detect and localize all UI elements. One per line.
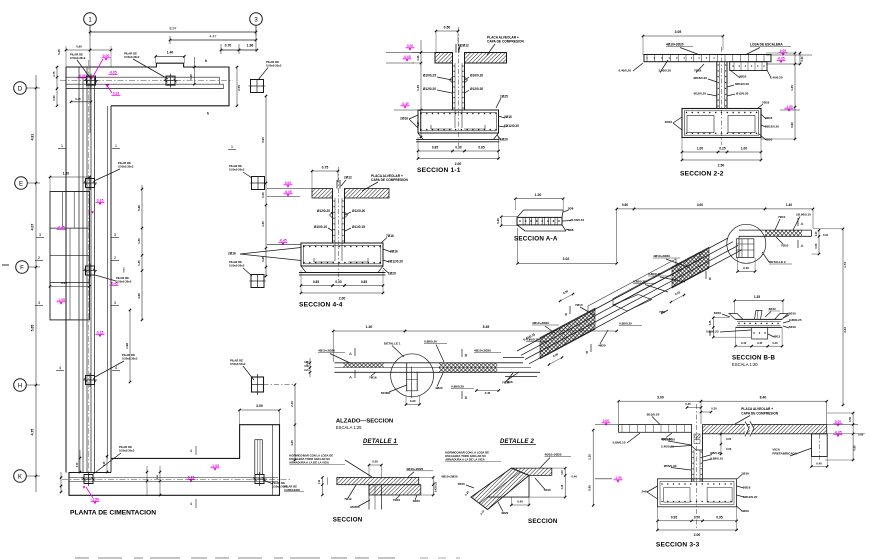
svg-text:PLANTA DE CIMENTACION: PLANTA DE CIMENTACION [70,510,156,517]
svg-text:4Ø10+2Ø20: 4Ø10+2Ø20 [666,43,684,47]
svg-text:4Ø16: 4Ø16 [739,75,747,79]
svg-text:0.25: 0.25 [562,484,564,489]
svg-text:Ø12/0.20: Ø12/0.20 [423,87,436,91]
svg-text:7Ø10: 7Ø10 [457,482,465,486]
section 1-1 wall [452,53,454,111]
svg-text:1.45: 1.45 [416,85,420,91]
grid bubble D [14,82,27,95]
svg-text:3.00: 3.00 [61,281,67,285]
svg-text:2Ø16: 2Ø16 [743,486,751,490]
svg-text:4Ø10+2Ø20: 4Ø10+2Ø20 [318,349,335,353]
svg-text:2.00: 2.00 [455,162,462,166]
svg-text:5.45: 5.45 [483,325,490,329]
svg-text:7Ø16: 7Ø16 [369,376,377,380]
section A-A end slants [517,210,524,217]
svg-text:0.45: 0.45 [103,461,106,466]
section 4-4 datum lines [267,188,312,190]
svg-text:0.88/0.20: 0.88/0.20 [424,340,437,344]
section 2-2 slab lower layer right [730,62,767,71]
vertical dim right of band 3.05 [236,67,238,106]
svg-text:8Ø12/0.20: 8Ø12/0.20 [735,82,749,86]
section 1-1 wall embedded into footing [454,110,456,128]
stair slab line 2 [521,242,733,356]
stair rotated dim 0.42 [671,295,684,302]
svg-text:Ø13/0.20: Ø13/0.20 [647,413,660,417]
svg-text:Ø8/0.20: Ø8/0.20 [661,437,672,441]
stair lap bar outline 1 [588,259,676,313]
section 2-2 datum lines right [766,54,812,56]
alzado top dim 1.30 [333,330,405,332]
svg-text:3Ø16: 3Ø16 [765,116,773,120]
svg-text:SECCION A-A: SECCION A-A [514,236,558,243]
section 3-3 top dim 3.00 [619,400,701,402]
svg-text:J#8: J#8 [641,490,646,494]
svg-text:0.40: 0.40 [743,266,749,270]
svg-text:0.55: 0.55 [848,416,852,422]
svg-text:0.95: 0.95 [588,485,592,491]
section 4-4 wall centreline [338,167,340,280]
section 3-3 wall centreline [696,404,698,530]
svg-text:K: K [18,474,22,480]
dimension 4.47 [170,39,256,41]
stair rotated dim 0.50 [560,294,573,301]
alzado left small dims [309,358,311,377]
svg-text:4Ø10+2Ø20: 4Ø10+2Ø20 [474,349,491,353]
dash-dot link from column H to dim [264,384,296,386]
stair dim 3.02 [518,262,617,264]
plan top band centreline [60,80,233,82]
svg-text:0.85: 0.85 [478,146,484,150]
section 4-4 footing bottom bars [314,258,334,262]
stair slab line 1 [517,238,728,351]
section A-A beam core [517,217,562,225]
svg-text:1Ø20: 1Ø20 [388,272,396,276]
stair step outline quad [613,295,651,312]
section 1-1 level datum lines [386,52,435,54]
svg-text:Ø11/0.15: Ø11/0.15 [352,225,365,229]
svg-text:1.35: 1.35 [754,295,760,299]
section B-B right flange [775,314,789,320]
section 3-3 footing voids [664,488,690,503]
svg-text:SECCION 2-2: SECCION 2-2 [680,171,724,178]
svg-text:1Ø20: 1Ø20 [741,509,749,513]
svg-text:0.00: 0.00 [285,181,291,185]
stair dim 0.40 below lower zone [549,358,562,365]
svg-text:0.60: 0.60 [189,74,193,80]
svg-text:0.90: 0.90 [52,95,56,101]
plan dim 1.40 near notch [156,55,185,57]
magenta leader bottom left [86,487,93,498]
svg-text:0.40: 0.40 [741,341,747,345]
svg-text:0.20: 0.20 [372,460,378,464]
alzado dim 0.30 below muro [406,404,420,406]
section 1-1 wall centreline [457,27,459,146]
alzado slab lines [334,362,523,364]
svg-text:Ø12/0.20: Ø12/0.20 [694,92,707,96]
svg-text:0.50: 0.50 [814,243,818,249]
svg-text:-0.05: -0.05 [284,190,292,194]
svg-text:0.70: 0.70 [77,462,79,467]
svg-text:3Ø16: 3Ø16 [504,115,512,119]
svg-text:A: A [801,221,804,226]
svg-text:4Ø10+2Ø20: 4Ø10+2Ø20 [545,453,562,457]
small dim bracket bottom left [60,472,62,492]
svg-text:B: B [465,395,468,400]
svg-text:B: B [565,312,568,317]
section 3-3 wall [691,432,693,482]
section 3-3 wall head [692,432,703,450]
dim 1.20 above block [50,176,90,178]
alzado right x-mark zone rows [371,363,508,368]
svg-text:4.60: 4.60 [137,293,141,299]
svg-text:0.20: 0.20 [726,447,732,451]
svg-text:PLACA ALVEOLAR +: PLACA ALVEOLAR + [741,407,773,411]
svg-text:0.40/0.20: 0.40/0.20 [618,69,631,73]
svg-text:0.60: 0.60 [852,445,856,451]
svg-text:4.75: 4.75 [31,429,35,436]
stair junction to landing [728,237,739,239]
svg-text:Ø12/0.20: Ø12/0.20 [736,92,749,96]
svg-text:2.50: 2.50 [718,164,725,168]
bottom band beam lines [69,477,278,479]
svg-text:CAPA DE COMPRESION: CAPA DE COMPRESION [487,39,525,43]
isolated column row H grid3 [252,377,264,392]
svg-text:0.80: 0.80 [622,203,628,207]
svg-text:B: B [465,353,468,358]
svg-text:0.40: 0.40 [772,341,778,345]
dim 0.40 below detail box [738,271,756,273]
svg-text:0.88/0.25: 0.88/0.25 [619,322,632,326]
plan small dims above corner [66,49,90,51]
svg-text:0.18: 0.18 [823,233,829,237]
svg-text:1.40: 1.40 [786,203,792,207]
svg-text:0.50x0.50x2: 0.50x0.50x2 [229,167,245,171]
svg-text:0.95: 0.95 [671,515,677,519]
plan vertical strip wall lines [65,67,67,473]
svg-text:0.50x0.30x2: 0.50x0.30x2 [70,56,86,60]
vertical dim right of notch [294,385,296,425]
svg-text:0.42/0.25: 0.42/0.25 [435,481,438,492]
svg-text:4Ø20: 4Ø20 [435,386,443,390]
svg-text:1.98: 1.98 [125,343,129,349]
section 1-1 left dim chain [420,40,422,137]
column bottom left on band [84,475,93,484]
section 4-4 bottom dims [301,285,333,287]
detail circle top of stair [727,224,766,263]
svg-text:ESCALA 1:20: ESCALA 1:20 [732,362,758,367]
svg-text:0.50x0.30x2: 0.50x0.30x2 [118,164,134,168]
section 2-2 wall [716,62,718,109]
svg-text:0.25: 0.25 [719,147,725,151]
svg-text:h: h [205,59,207,63]
svg-text:SECCION: SECCION [333,517,363,524]
svg-text:7Ø16: 7Ø16 [386,234,394,238]
detalle 1 step verticals [368,485,370,510]
svg-text:2Ø12: 2Ø12 [344,176,352,180]
section B-B left dim chain [712,318,714,338]
section B-B bottom dims [736,345,752,347]
grid bubble E [15,177,28,190]
svg-text:B: B [709,276,712,281]
section 1-1 footing bottom bars [431,125,452,129]
grid bubble F [16,261,29,274]
svg-text:D: D [18,86,23,92]
section 3-3 slab break mark [745,421,754,436]
svg-text:0.26: 0.26 [416,55,420,61]
section B-B centre stub up [754,310,762,319]
svg-text:CABECERO: CABECERO [284,488,301,492]
svg-text:4Ø12: 4Ø12 [773,335,781,339]
dim 3.00 above notch [240,409,280,411]
vertical dim chain grid3 [265,96,267,276]
svg-text:-0.45: -0.45 [57,226,65,230]
svg-text:1.20: 1.20 [535,193,542,197]
svg-text:0.50x0.30x2: 0.50x0.30x2 [116,279,132,283]
svg-text:0.88/0.25: 0.88/0.25 [633,280,646,284]
svg-text:0.30: 0.30 [455,146,461,150]
column bottom right on band [255,475,264,484]
svg-text:0.20: 0.20 [816,231,818,236]
svg-text:3.60: 3.60 [697,203,703,207]
svg-text:0.90: 0.90 [76,45,82,49]
svg-text:0.50: 0.50 [444,26,451,30]
svg-text:1.00: 1.00 [697,147,703,151]
left vertical dimension chain [35,75,37,492]
svg-text:3Ø8: 3Ø8 [568,207,574,211]
svg-text:DETALLE 1: DETALLE 1 [384,342,401,346]
dim inside block [50,285,90,287]
svg-text:3Ø12: 3Ø12 [769,307,777,311]
section 4-4 slab hatched [312,189,333,199]
plan bottom band outline [69,425,280,496]
svg-text:0.70: 0.70 [225,44,232,48]
svg-text:Ø10/0.10: Ø10/0.10 [314,225,327,229]
stair junction stubs lower [503,356,524,358]
alzado section cut B marks [461,349,463,357]
bottom cropped text artifacts [75,557,395,559]
grid bubble 1 [84,13,97,26]
svg-text:1.35: 1.35 [137,260,141,266]
detalle 2 diagonal band mid line [479,472,520,504]
dimensions 0.70 1.98 [221,49,239,51]
alzado dim 0.45 below [476,390,498,392]
section 3-3 wall small dims right [720,434,722,444]
vertical small dims inside bottom band [159,466,161,496]
section A-A beam top line [524,209,564,211]
section 3-3 right slab hatched [703,425,827,434]
dimension 8.97 between grids 1-3 [90,31,256,33]
svg-text:6Ø12/0.20: 6Ø12/0.20 [743,495,758,499]
svg-text:2Ø16: 2Ø16 [228,252,236,256]
svg-text:ALZADO—SECCION: ALZADO—SECCION [336,419,393,425]
bottom band centreline [62,479,290,481]
detalle 2 diagonal band hatched [471,468,529,509]
section 1-1 slab placa alveolar hatched [435,53,507,64]
section A-A left dim 0.26 [500,217,502,226]
svg-text:0.50x0.50x2: 0.50x0.50x2 [266,63,282,67]
section 4-4 wall embedded into footing [334,243,336,261]
landing slab top [739,229,812,231]
pier rectangle bottom right [255,440,262,475]
svg-text:3Ø10: 3Ø10 [714,311,722,315]
svg-text:A: A [349,351,352,356]
svg-text:1.35: 1.35 [261,221,265,227]
section 3-3 dims 0.35 0.20 [687,407,701,409]
section 2-2 footing [682,109,761,138]
svg-text:6Ø12/0.20: 6Ø12/0.20 [765,125,779,129]
svg-text:8.40: 8.40 [760,395,767,399]
svg-text:0.50x0.50x2: 0.50x0.50x2 [229,263,245,267]
section 4-4 wall [332,189,334,244]
svg-text:0.15: 0.15 [97,199,104,203]
detalle 1 upper slab hatched [337,477,419,484]
svg-text:0.12: 0.12 [319,479,321,484]
section A-A beam bottom line [525,230,566,232]
svg-text:2Ø16: 2Ø16 [665,120,673,124]
svg-text:3.02: 3.02 [563,257,570,261]
grid bubble 3 [250,13,263,26]
svg-text:7Ø10: 7Ø10 [778,215,786,219]
alzado section cut A marks [354,348,356,356]
vertical dim 0.60 inside band [193,57,195,85]
svg-text:0.45: 0.45 [485,391,491,395]
svg-text:7Ø16: 7Ø16 [762,101,770,105]
svg-text:3Ø8: 3Ø8 [568,228,574,232]
vertical dim left of band [56,67,58,106]
svg-text:1.25: 1.25 [588,454,592,460]
svg-text:Ø10/0.25: Ø10/0.25 [423,74,436,78]
stair right vertical dim [842,229,844,405]
svg-text:Ø12/0.20: Ø12/0.20 [352,209,365,213]
section 2-2 top dim 3.05 [643,35,723,37]
svg-text:0.18: 0.18 [562,470,564,475]
strip column row E [86,179,95,188]
svg-text:1.20: 1.20 [63,171,70,175]
svg-text:0.20: 0.20 [304,370,309,372]
svg-text:0.88/0.25: 0.88/0.25 [789,318,802,322]
section 2-2 centreline [720,47,722,145]
svg-text:A: A [349,375,352,380]
svg-text:0.20: 0.20 [304,362,309,364]
svg-text:ESCALA 1:25: ESCALA 1:25 [336,425,362,430]
svg-text:0.35: 0.35 [685,402,691,406]
svg-text:0.30: 0.30 [335,280,341,284]
svg-text:0.30: 0.30 [410,399,416,403]
section B-B centre block below [752,327,768,339]
svg-text:0.26: 0.26 [496,218,500,224]
svg-text:4Ø20: 4Ø20 [413,499,421,503]
svg-text:4Ø20: 4Ø20 [598,344,606,348]
svg-text:CAPA DE COMPRESION: CAPA DE COMPRESION [741,412,779,416]
alzado muro below slab [406,363,408,392]
stair top dims [617,208,634,210]
right vertical dim chain mid [141,185,143,320]
svg-text:Ø10/0.20: Ø10/0.20 [470,74,483,78]
alzado detail circle [391,354,434,397]
svg-text:1Ø20: 1Ø20 [500,138,508,142]
section 1-1 footing [418,110,499,133]
svg-text:0.70: 0.70 [694,515,700,519]
svg-text:3Ø10: 3Ø10 [789,312,797,316]
svg-text:0.95: 0.95 [716,515,722,519]
strip column row F [86,266,95,275]
alzado left x-mark zone [291,363,396,368]
svg-text:1Ø25: 1Ø25 [500,95,508,99]
svg-text:SECCION: SECCION [528,518,558,525]
detalle 2 right dims [564,468,566,497]
svg-text:Ø55/0.30: Ø55/0.30 [664,464,677,468]
svg-text:0.20: 0.20 [711,407,717,411]
plan top band outline [66,63,229,106]
section 2-2 footing voids [687,116,714,133]
svg-text:6Ø12/0.20: 6Ø12/0.20 [504,124,519,128]
svg-text:7Ø10: 7Ø10 [781,244,789,248]
svg-text:E: E [19,181,23,187]
svg-text:DETALLE 2: DETALLE 2 [769,260,786,264]
stair lap bar outline 2 [613,252,700,306]
section 4-4 footing [301,243,383,266]
svg-text:2.00: 2.00 [290,401,294,407]
svg-text:4Ø10+2Ø20: 4Ø10+2Ø20 [441,475,458,479]
landing right small dims [818,230,820,254]
section 1-1 bottom dims [418,150,453,152]
svg-text:h: h [207,112,209,116]
landing rebar x-marks [717,230,815,236]
svg-text:4.81: 4.81 [31,134,35,141]
svg-text:1.40/0.20: 1.40/0.20 [770,76,783,80]
section 2-2 slab of stair landing [644,55,771,62]
svg-text:1Ø16: 1Ø16 [741,472,749,476]
svg-text:7Ø10: 7Ø10 [789,325,797,329]
svg-text:3.00: 3.00 [256,404,263,408]
svg-text:2Ø12: 2Ø12 [461,44,469,48]
svg-text:DETALLE 1: DETALLE 1 [363,439,397,445]
column P1 on band [87,76,96,85]
svg-text:0.60: 0.60 [790,122,794,128]
left footing block [50,192,90,320]
detalle 1 left dims [321,477,323,495]
section 3-3 top dim 8.40 [701,400,827,402]
svg-text:2.00: 2.00 [339,297,346,301]
detalle 1 right dims [432,477,434,495]
svg-text:0.015: 0.015 [124,267,126,273]
svg-text:0.85: 0.85 [361,280,367,284]
svg-text:1.00: 1.00 [741,147,747,151]
svg-text:0.75: 0.75 [52,71,56,77]
detalle 2 dim 0.40 [511,504,529,506]
svg-text:1.30: 1.30 [366,325,373,329]
small dims near bottom band left [106,456,108,472]
svg-text:0.88/0.25: 0.88/0.25 [706,330,719,334]
section 3-3 left slab planks [619,425,692,433]
section 4-4 left dim chain [304,188,306,224]
svg-text:DETALLE 2: DETALLE 2 [500,439,534,445]
svg-text:3.43: 3.43 [843,327,847,333]
section 1-1 dim 0.50 above [436,30,458,32]
svg-text:7Ø10: 7Ø10 [575,303,583,307]
svg-text:1.50: 1.50 [137,238,141,244]
svg-text:0.88/0.25: 0.88/0.25 [648,272,661,276]
svg-text:3.95: 3.95 [261,137,265,143]
svg-text:0.60: 0.60 [416,121,420,127]
isolated column row E grid3 [252,177,265,190]
section 3-3 right hung column [812,434,828,457]
section 3-3 right dim chain [852,413,854,460]
svg-text:ARMADURA A LA DE LA VIGA: ARMADURA A LA DE LA VIGA [445,458,485,462]
svg-text:0.88/0.10: 0.88/0.10 [710,456,723,460]
svg-text:3Ø16: 3Ø16 [390,250,398,254]
svg-text:0.08: 0.08 [858,433,864,437]
